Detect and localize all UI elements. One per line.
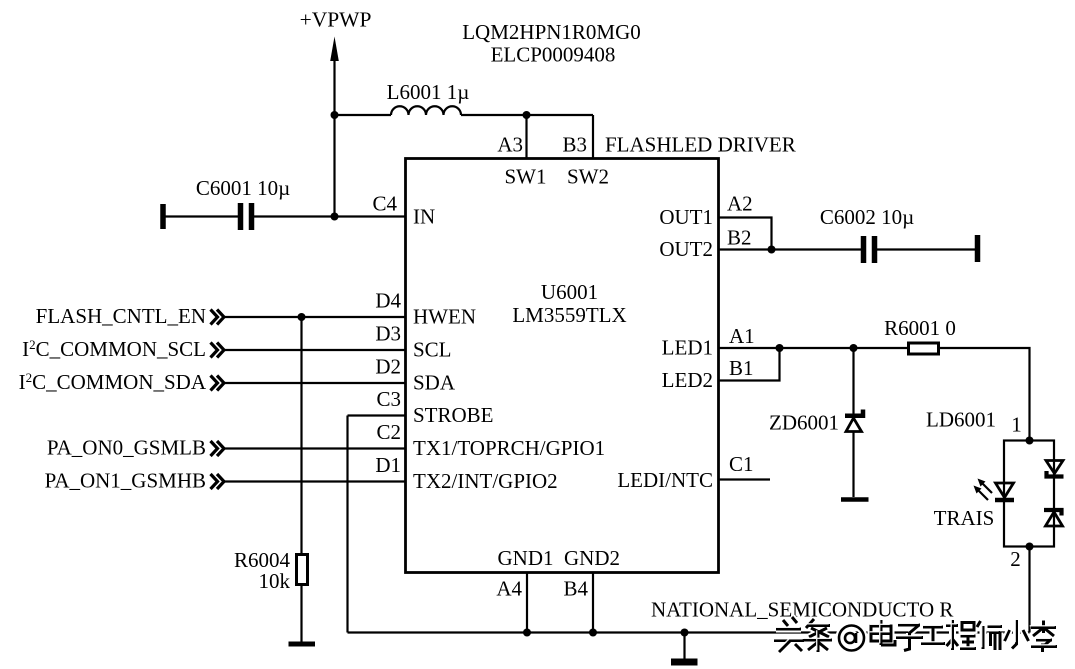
svg-text:R6001 0: R6001 0 [884,316,956,340]
svg-text:ELCP0009408: ELCP0009408 [491,43,616,67]
wire OUT2 pin B2 to C6002 [719,248,862,250]
wire I2C_COMMON_SCL to SCL pin D3 [224,349,406,351]
LED package LD6001 label [926,408,996,432]
capacitor C6002 [864,236,875,263]
junction ground symbol/rail [681,629,689,637]
IC pin names [413,165,713,571]
svg-text:10k: 10k [259,569,291,593]
svg-text:FLASH_CNTL_EN: FLASH_CNTL_EN [36,304,206,328]
pin label D1 [375,453,401,477]
pin label B4 [563,577,588,601]
svg-text:D1: D1 [375,453,401,477]
svg-text:TX2/INT/GPIO2: TX2/INT/GPIO2 [413,469,558,493]
pin number 2 [1010,547,1021,571]
junction LED1/LED2 [776,344,784,352]
svg-text:A1: A1 [729,324,755,348]
svg-text:B4: B4 [563,577,588,601]
svg-text:A3: A3 [497,133,523,157]
label TRAIS [934,506,995,530]
pin label A1 [729,324,755,348]
pin label B2 [727,226,752,250]
signal PA_ON1_GSMHB label [45,469,206,493]
svg-text:LED1: LED1 [662,336,713,360]
svg-text:LD6001: LD6001 [926,408,996,432]
svg-text:L6001 1µ: L6001 1µ [387,80,470,104]
ground bar ZD6001 [841,497,869,502]
svg-text:D2: D2 [375,355,401,379]
wire R6001 to LD6001 pin 1 [939,348,1030,441]
signal I2C_COMMON_SCL label [22,337,206,361]
pin label B3 [562,133,587,157]
svg-text:U6001: U6001 [541,280,598,304]
svg-text:C6002 10µ: C6002 10µ [820,205,914,229]
part number label LQM2HPN1R0MG0 [462,20,641,44]
ground rail [348,631,1030,633]
svg-text:I2C_COMMON_SDA: I2C_COMMON_SDA [19,370,207,394]
svg-text:B3: B3 [562,133,587,157]
signal PA_ON0_GSMLB label [47,436,206,460]
port chevron FLASH_CNTL_EN [211,310,225,325]
junction at SW1 node [523,111,531,119]
wire R6004 branch [300,317,302,555]
wire LED2 pin B1 [719,348,780,381]
svg-text:C3: C3 [376,387,401,411]
svg-text:C2: C2 [376,420,401,444]
svg-text:SW1: SW1 [505,165,547,189]
wire PA_ON1_GSMHB to TX2 pin D1 [224,480,406,482]
resistor R6004 [297,555,308,585]
junction LED1/ZD6001 [850,344,858,352]
wire GND2 pin B4 [592,573,594,633]
svg-text:IN: IN [413,205,435,229]
protection diode top (cathode down) [1046,461,1064,477]
resistor R6004 label [234,548,291,593]
protection diode bottom (cathode up) [1044,510,1063,526]
pin label C1 [729,452,754,476]
port chevron I2C_COMMON_SDA [211,376,225,391]
power arrow +VPWP [330,37,339,218]
wire ZD6001 to ground [852,432,854,498]
svg-text:TX1/TOPRCH/GPIO1: TX1/TOPRCH/GPIO1 [413,436,605,460]
svg-text:FLASHLED DRIVER: FLASHLED DRIVER [605,133,796,157]
svg-text:1: 1 [1011,413,1022,437]
pin label D3 [375,322,401,346]
svg-text:PA_ON1_GSMHB: PA_ON1_GSMHB [45,469,206,493]
svg-text:STROBE: STROBE [413,403,494,427]
svg-text:NATIONAL_SEMICONDUCTO R: NATIONAL_SEMICONDUCTO R [651,598,953,622]
wire STROBE down to ground rail [346,416,348,633]
port chevron PA_ON1_GSMHB [211,474,225,489]
wire STROBE pin C3 [348,414,406,416]
pin label D4 [375,289,401,313]
junction LD6001 pin 2 [1026,543,1034,551]
svg-text:LED2: LED2 [662,368,713,392]
wire GND1 pin A4 [526,573,528,633]
ground symbol stub [683,633,685,659]
inductor L6001 label [387,80,470,104]
pin label C3 [376,387,401,411]
wire LEDI/NTC pin C1 stub [719,478,771,480]
port chevron I2C_COMMON_SCL [211,343,225,358]
wire LED1 node to ZD6001 [852,348,854,414]
IC U6001 body [406,159,719,573]
pin label A2 [727,192,753,216]
LED D1 triangle [995,483,1014,500]
LED D1 emission arrows [974,479,993,501]
svg-text:GND1: GND1 [498,546,554,570]
capacitor C6001 terminal bar [160,204,166,229]
LED package LD6001 outline [1004,441,1054,547]
wire C6001 to IN pin C4 [254,215,406,217]
svg-text:OUT2: OUT2 [659,237,713,261]
signal I2C_COMMON_SDA label [19,370,207,394]
resistor R6001 [909,343,939,354]
svg-text:B1: B1 [729,356,754,380]
wire OUT1 pin A2 [719,218,772,250]
zener diode ZD6001 [845,410,863,432]
junction GND1/rail [523,629,531,637]
junction OUT1/OUT2 [768,246,776,254]
net +VPWP label [300,8,372,32]
capacitor C6001 [241,203,252,230]
wire C6002 to terminal [877,248,978,250]
svg-text:TRAIS: TRAIS [934,506,995,530]
pin label D2 [375,355,401,379]
pin label A4 [496,577,522,601]
svg-text:C4: C4 [372,192,397,216]
junction at R6004 tap [298,313,306,321]
pin label B1 [729,356,754,380]
wire I2C_COMMON_SDA to SDA pin D2 [224,382,406,384]
svg-text:A2: A2 [727,192,753,216]
svg-text:HWEN: HWEN [413,305,476,329]
svg-text:D3: D3 [375,322,401,346]
capacitor C6002 label [820,205,914,229]
svg-text:I2C_COMMON_SCL: I2C_COMMON_SCL [22,337,206,361]
port chevron PA_ON0_GSMLB [211,441,225,456]
svg-text:LQM2HPN1R0MG0: LQM2HPN1R0MG0 [462,20,641,44]
wire SW1 stub pin A3 [525,115,527,159]
wire terminal to C6001 [163,215,238,217]
part number label ELCP0009408 [491,43,616,67]
svg-text:C1: C1 [729,452,754,476]
svg-text:D4: D4 [375,289,401,313]
pin label C4 [372,192,397,216]
wire SW2 stub pin B3 [592,115,594,159]
wire LD6001 pin 2 to ground rail [1028,547,1030,633]
svg-text:2: 2 [1010,547,1021,571]
resistor R6001 label [884,316,956,340]
signal FLASH_CNTL_EN label [36,304,206,328]
svg-text:+VPWP: +VPWP [300,8,372,32]
pin number 1 [1011,413,1022,437]
svg-text:LEDI/NTC: LEDI/NTC [617,468,713,492]
svg-text:B2: B2 [727,226,752,250]
svg-text:GND2: GND2 [564,546,620,570]
pin label C2 [376,420,401,444]
inductor L6001 [391,106,461,115]
wire inductor to SW node [461,114,593,116]
junction LD6001 pin 1 [1026,437,1034,445]
svg-text:A4: A4 [496,577,522,601]
wire VPWP to inductor [335,114,392,116]
wire LED1 pin A1 [719,347,909,349]
svg-text:SCL: SCL [413,338,452,362]
junction GND2/rail [589,629,597,637]
junction at VPWP/IN [331,213,339,221]
junction at VPWP/inductor [331,111,339,119]
svg-text:SW2: SW2 [567,165,609,189]
svg-text:OUT1: OUT1 [659,205,713,229]
svg-text:C6001 10µ: C6001 10µ [196,176,290,200]
wire R6004 to ground [300,585,302,642]
svg-text:ZD6001: ZD6001 [769,411,839,435]
capacitor C6001 label [196,176,290,200]
ground bar main [671,659,698,666]
capacitor C6002 terminal bar [975,235,981,262]
ground bar R6004 [289,642,316,647]
label NATIONAL_SEMICONDUCTO R [651,598,953,622]
svg-text:LM3559TLX: LM3559TLX [512,303,626,327]
watermark 头条@电子工程师小李 [773,617,1057,652]
svg-text:SDA: SDA [413,371,456,395]
svg-text:PA_ON0_GSMLB: PA_ON0_GSMLB [47,436,206,460]
pin label A3 [497,133,523,157]
zener ZD6001 label [769,411,839,435]
wire PA_ON0_GSMLB to TX1 pin C2 [224,447,406,449]
label FLASHLED DRIVER [605,133,796,157]
wire FLASH_CNTL_EN to HWEN pin D4 [224,316,406,318]
